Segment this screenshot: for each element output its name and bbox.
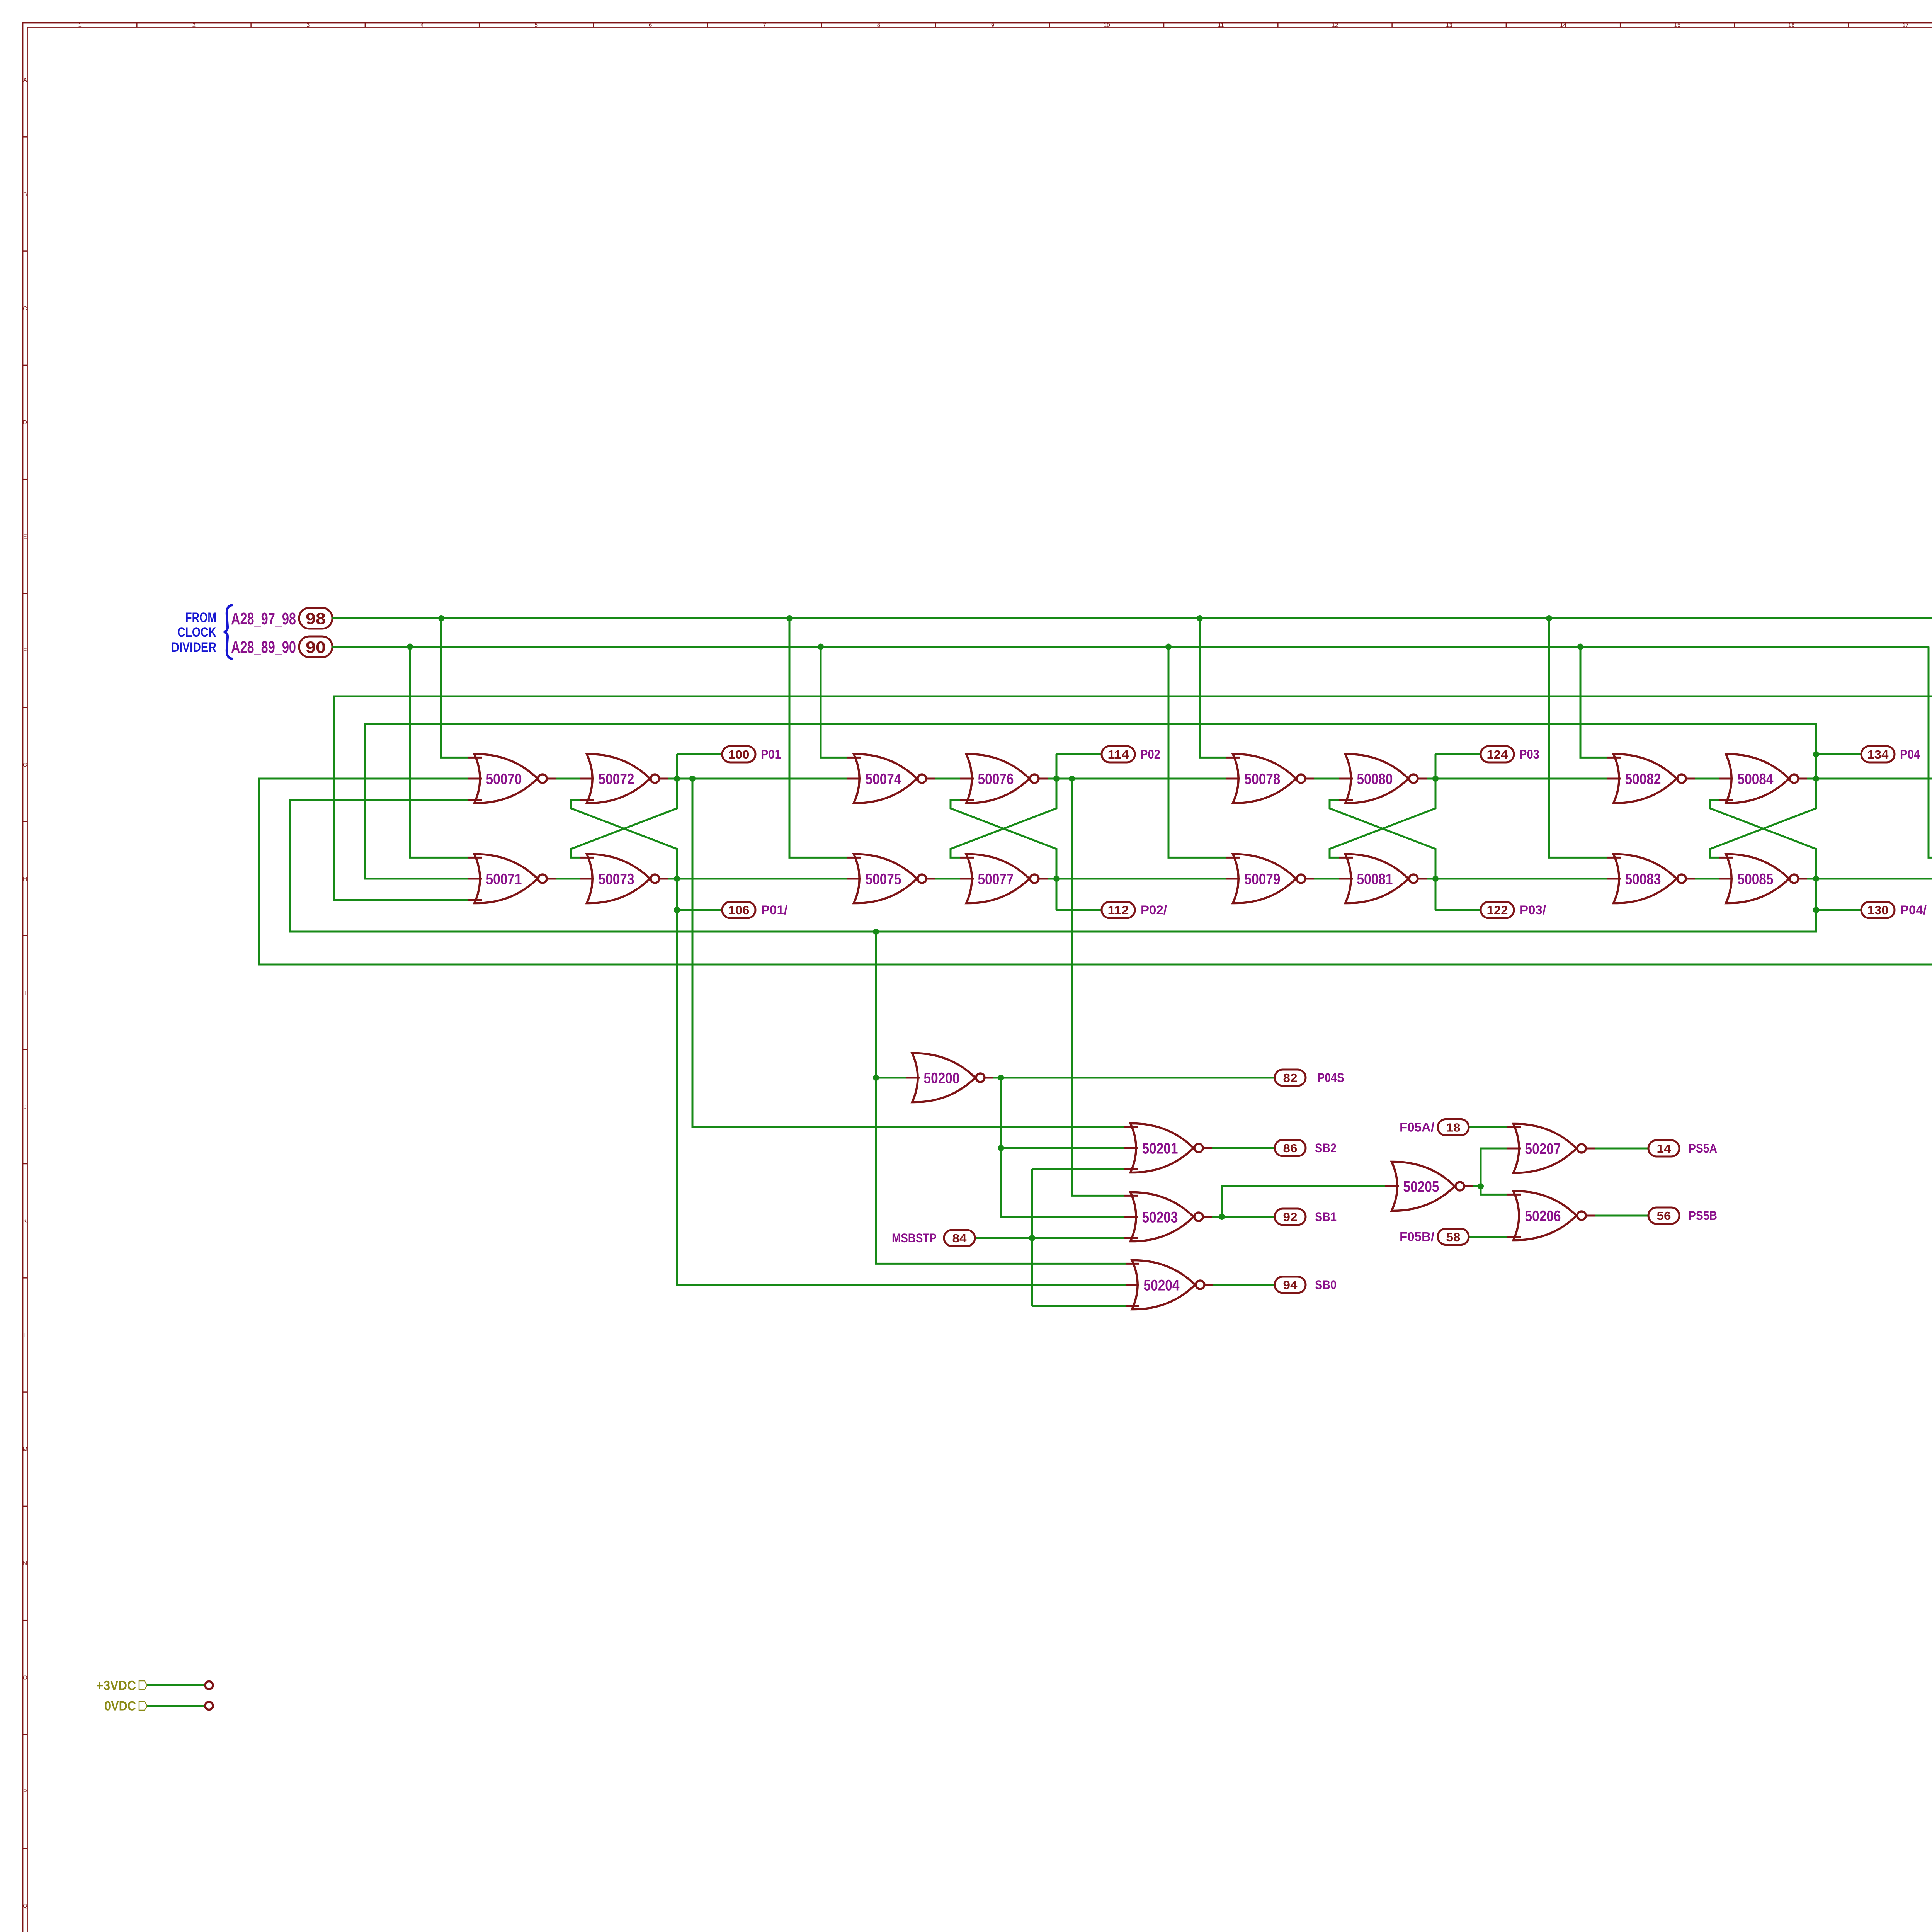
svg-text:50206: 50206 xyxy=(1525,1208,1561,1225)
svg-text:H: H xyxy=(23,876,27,882)
svg-text:CLOCK: CLOCK xyxy=(177,625,216,640)
svg-text:J: J xyxy=(24,1104,27,1111)
svg-text:6: 6 xyxy=(649,22,652,29)
svg-text:FROM: FROM xyxy=(185,610,216,625)
svg-text:B: B xyxy=(23,191,27,197)
svg-text:92: 92 xyxy=(1283,1210,1298,1224)
svg-text:94: 94 xyxy=(1283,1278,1298,1292)
svg-text:P03/: P03/ xyxy=(1520,903,1546,917)
svg-text:5: 5 xyxy=(535,22,538,29)
svg-text:50070: 50070 xyxy=(486,771,522,788)
svg-text:P04: P04 xyxy=(1900,747,1920,761)
svg-text:50080: 50080 xyxy=(1357,771,1393,788)
svg-text:14: 14 xyxy=(1560,22,1566,29)
svg-text:50078: 50078 xyxy=(1245,771,1281,788)
svg-text:12: 12 xyxy=(1332,22,1338,29)
svg-text:D: D xyxy=(23,419,27,426)
svg-text:15: 15 xyxy=(1674,22,1681,29)
svg-text:130: 130 xyxy=(1867,903,1889,917)
svg-text:50200: 50200 xyxy=(924,1070,960,1087)
svg-text:50082: 50082 xyxy=(1625,771,1661,788)
svg-text:O: O xyxy=(23,1674,27,1681)
svg-text:P: P xyxy=(23,1789,27,1795)
svg-text:F: F xyxy=(23,648,27,654)
svg-text:P04S: P04S xyxy=(1317,1071,1344,1085)
svg-text:50071: 50071 xyxy=(486,871,522,888)
svg-text:SB0: SB0 xyxy=(1315,1278,1337,1292)
svg-text:1: 1 xyxy=(78,22,81,29)
svg-text:50073: 50073 xyxy=(599,871,634,888)
svg-text:I: I xyxy=(24,990,26,997)
svg-text:G: G xyxy=(23,762,27,768)
svg-text:50203: 50203 xyxy=(1142,1209,1178,1226)
svg-text:P03: P03 xyxy=(1519,747,1539,761)
svg-text:F05B/: F05B/ xyxy=(1400,1230,1434,1244)
svg-text:7: 7 xyxy=(763,22,766,29)
svg-text:50077: 50077 xyxy=(978,871,1014,888)
svg-text:P02/: P02/ xyxy=(1141,903,1167,917)
svg-text:E: E xyxy=(23,533,27,540)
svg-text:+3VDC: +3VDC xyxy=(96,1679,136,1693)
svg-text:Q: Q xyxy=(23,1903,27,1909)
svg-text:C: C xyxy=(23,305,27,312)
svg-text:A28_89_90: A28_89_90 xyxy=(231,638,296,657)
svg-text:3: 3 xyxy=(306,22,310,29)
svg-text:86: 86 xyxy=(1283,1141,1298,1155)
svg-text:0VDC: 0VDC xyxy=(104,1699,136,1714)
svg-text:9: 9 xyxy=(991,22,994,29)
svg-text:50074: 50074 xyxy=(866,771,902,788)
svg-text:17: 17 xyxy=(1902,22,1909,29)
svg-text:58: 58 xyxy=(1446,1230,1461,1244)
svg-text:A28_97_98: A28_97_98 xyxy=(231,609,296,628)
svg-text:50081: 50081 xyxy=(1357,871,1393,888)
svg-text:112: 112 xyxy=(1108,903,1129,917)
svg-text:N: N xyxy=(23,1560,27,1567)
svg-text:10: 10 xyxy=(1104,22,1110,29)
svg-text:90: 90 xyxy=(306,638,326,656)
svg-text:MSBSTP: MSBSTP xyxy=(892,1231,937,1245)
svg-text:50072: 50072 xyxy=(599,771,634,788)
svg-text:13: 13 xyxy=(1446,22,1452,29)
svg-text:18: 18 xyxy=(1446,1121,1461,1134)
svg-text:PS5A: PS5A xyxy=(1689,1141,1717,1155)
svg-text:SB1: SB1 xyxy=(1315,1210,1337,1224)
svg-text:106: 106 xyxy=(728,903,750,917)
svg-text:PS5B: PS5B xyxy=(1689,1209,1717,1223)
svg-text:SB2: SB2 xyxy=(1315,1141,1337,1155)
svg-text:50084: 50084 xyxy=(1738,771,1774,788)
svg-text:50083: 50083 xyxy=(1625,871,1661,888)
svg-text:98: 98 xyxy=(306,609,326,628)
svg-text:100: 100 xyxy=(728,748,750,761)
svg-text:82: 82 xyxy=(1283,1071,1298,1085)
svg-text:134: 134 xyxy=(1867,748,1889,761)
svg-text:122: 122 xyxy=(1487,903,1508,917)
svg-text:K: K xyxy=(23,1218,27,1225)
svg-text:50207: 50207 xyxy=(1525,1141,1561,1158)
svg-text:F05A/: F05A/ xyxy=(1400,1120,1434,1134)
svg-text:50085: 50085 xyxy=(1738,871,1774,888)
svg-text:L: L xyxy=(24,1332,27,1338)
svg-text:8: 8 xyxy=(877,22,880,29)
svg-text:2: 2 xyxy=(192,22,196,29)
svg-text:P04/: P04/ xyxy=(1900,903,1927,917)
svg-text:56: 56 xyxy=(1657,1209,1671,1223)
svg-text:4: 4 xyxy=(420,22,423,29)
svg-text:11: 11 xyxy=(1218,22,1224,29)
svg-text:16: 16 xyxy=(1788,22,1795,29)
svg-text:P01: P01 xyxy=(761,747,781,761)
svg-text:P02: P02 xyxy=(1140,747,1160,761)
svg-text:50076: 50076 xyxy=(978,771,1014,788)
svg-text:84: 84 xyxy=(952,1231,967,1245)
svg-text:DIVIDER: DIVIDER xyxy=(171,640,216,655)
svg-text:A: A xyxy=(23,77,27,83)
svg-text:50205: 50205 xyxy=(1403,1179,1439,1196)
svg-text:50079: 50079 xyxy=(1245,871,1281,888)
svg-text:14: 14 xyxy=(1657,1142,1672,1155)
svg-text:50075: 50075 xyxy=(866,871,901,888)
svg-text:P01/: P01/ xyxy=(761,903,787,917)
svg-text:50204: 50204 xyxy=(1144,1277,1180,1294)
svg-text:124: 124 xyxy=(1487,748,1509,761)
svg-text:114: 114 xyxy=(1108,748,1129,761)
svg-text:M: M xyxy=(22,1446,27,1453)
svg-text:50201: 50201 xyxy=(1142,1140,1178,1157)
